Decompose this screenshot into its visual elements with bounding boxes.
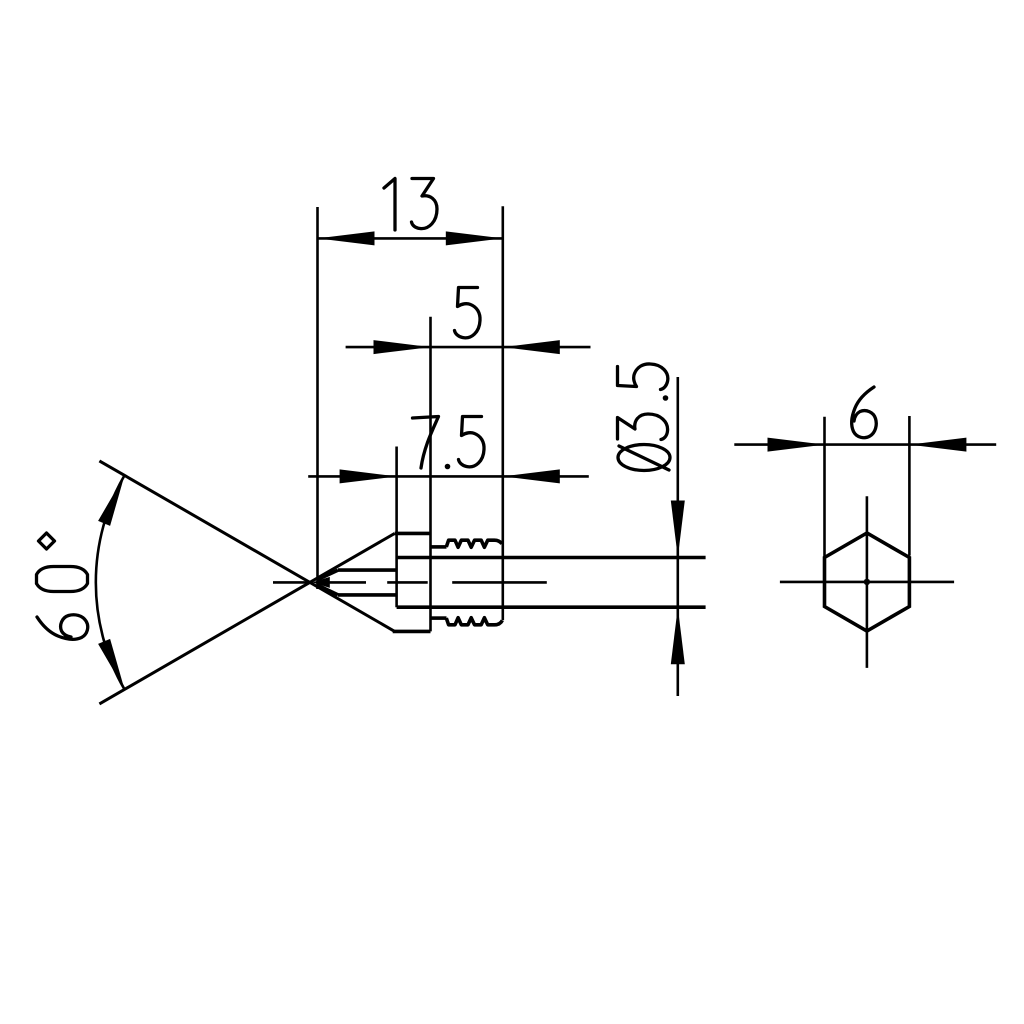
dimension 13 dimension line (318, 237, 503, 240)
hex nut outline (end view) (825, 533, 910, 631)
dimension 13/5/7.5 extension line right (nozzle end plane) (501, 206, 504, 620)
nozzle centerline dash 3 (long) (452, 581, 547, 584)
text "60deg" digit 0 (rotated) (37, 567, 88, 592)
thread bottom root line (431, 616, 447, 620)
60deg construction line lower-left through tip = upper cone edge (99, 533, 394, 704)
dimension 5 arrow right (outside, points left) (503, 340, 560, 354)
text "dia3.5" diameter symbol (rotated) (618, 445, 670, 471)
dimension 6 extension line right (908, 416, 911, 556)
dimension 5 extension line left / flange right face (429, 317, 432, 632)
nozzle bore line dia3.5 top / extension to dimension (397, 556, 706, 560)
nozzle centerline dash left of tip (273, 581, 310, 584)
nozzle flange top edge (395, 532, 431, 536)
dimension 7.5 extension line left / cone-flange junction (395, 447, 398, 608)
text "13" digit 3 (412, 179, 438, 229)
text "5" (455, 288, 481, 338)
dimension 5 dimension line (346, 346, 591, 349)
dimension 5 arrow left (outside, points right) (374, 340, 431, 354)
decimal dot of 7.5 (445, 464, 451, 470)
dimension 13 arrow right (446, 231, 503, 245)
dimension 6 dimension line (734, 443, 996, 446)
nozzle flange bottom edge (393, 630, 431, 634)
nozzle centerline dash 2 (387, 581, 428, 584)
dimension 7.5 arrow left (340, 469, 397, 483)
dimension 60deg angle arc (96, 475, 125, 689)
dimension dia3.5 vertical dimension line (676, 377, 679, 696)
hex view vertical centerline (866, 496, 869, 668)
text "60deg" degree symbol (diamond) (39, 533, 55, 549)
thread top crests (446, 540, 502, 547)
dimension 6 arrow left (768, 438, 825, 452)
thread top root line (431, 545, 447, 549)
decimal dot of dia3.5 (rotated text) (663, 395, 669, 401)
hex view horizontal centerline (780, 581, 954, 584)
nozzle bore line dia3.5 bottom / extension to dimension (397, 605, 706, 609)
dimension 7.5 arrow right (503, 469, 560, 483)
text "dia3.5" digit 5 (rotated) (618, 364, 668, 390)
dimension 7.5 dimension line (308, 475, 589, 478)
dimension 13 arrow left (318, 231, 375, 245)
text "60deg" digit 6 (rotated) (37, 615, 88, 640)
dimension dia3.5 arrow top (points down) (671, 501, 685, 558)
thread bottom crests (446, 618, 502, 625)
nozzle tip inner cone upper edge (318, 570, 338, 579)
text "dia3.5" digit 3 (rotated) (618, 414, 668, 440)
60deg arc arrow lower (98, 639, 124, 690)
dimension 6 arrow right (909, 438, 966, 452)
dimension dia3.5 arrow bottom (points up) (671, 607, 685, 664)
dimension 13 extension line left (tip plane) (316, 207, 319, 589)
60deg arc arrow upper (98, 475, 124, 526)
dimension 6 extension line left (823, 417, 826, 558)
text "6" (hex view) (852, 387, 877, 438)
text "7.5" digit 5 (459, 417, 485, 467)
nozzle tip orifice arrow (312, 577, 330, 588)
nozzle centerline dash at tip arrow (330, 581, 367, 584)
hex view center dot (864, 579, 870, 585)
nozzle inner bore bottom line (338, 593, 397, 597)
60deg construction line upper-left through tip = lower cone edge (99, 461, 394, 632)
nozzle inner bore top line (338, 568, 397, 572)
text "13" digit 1 (384, 179, 395, 231)
text "7.5" digit 7 (413, 417, 439, 469)
nozzle tip inner cone lower edge (318, 585, 338, 595)
